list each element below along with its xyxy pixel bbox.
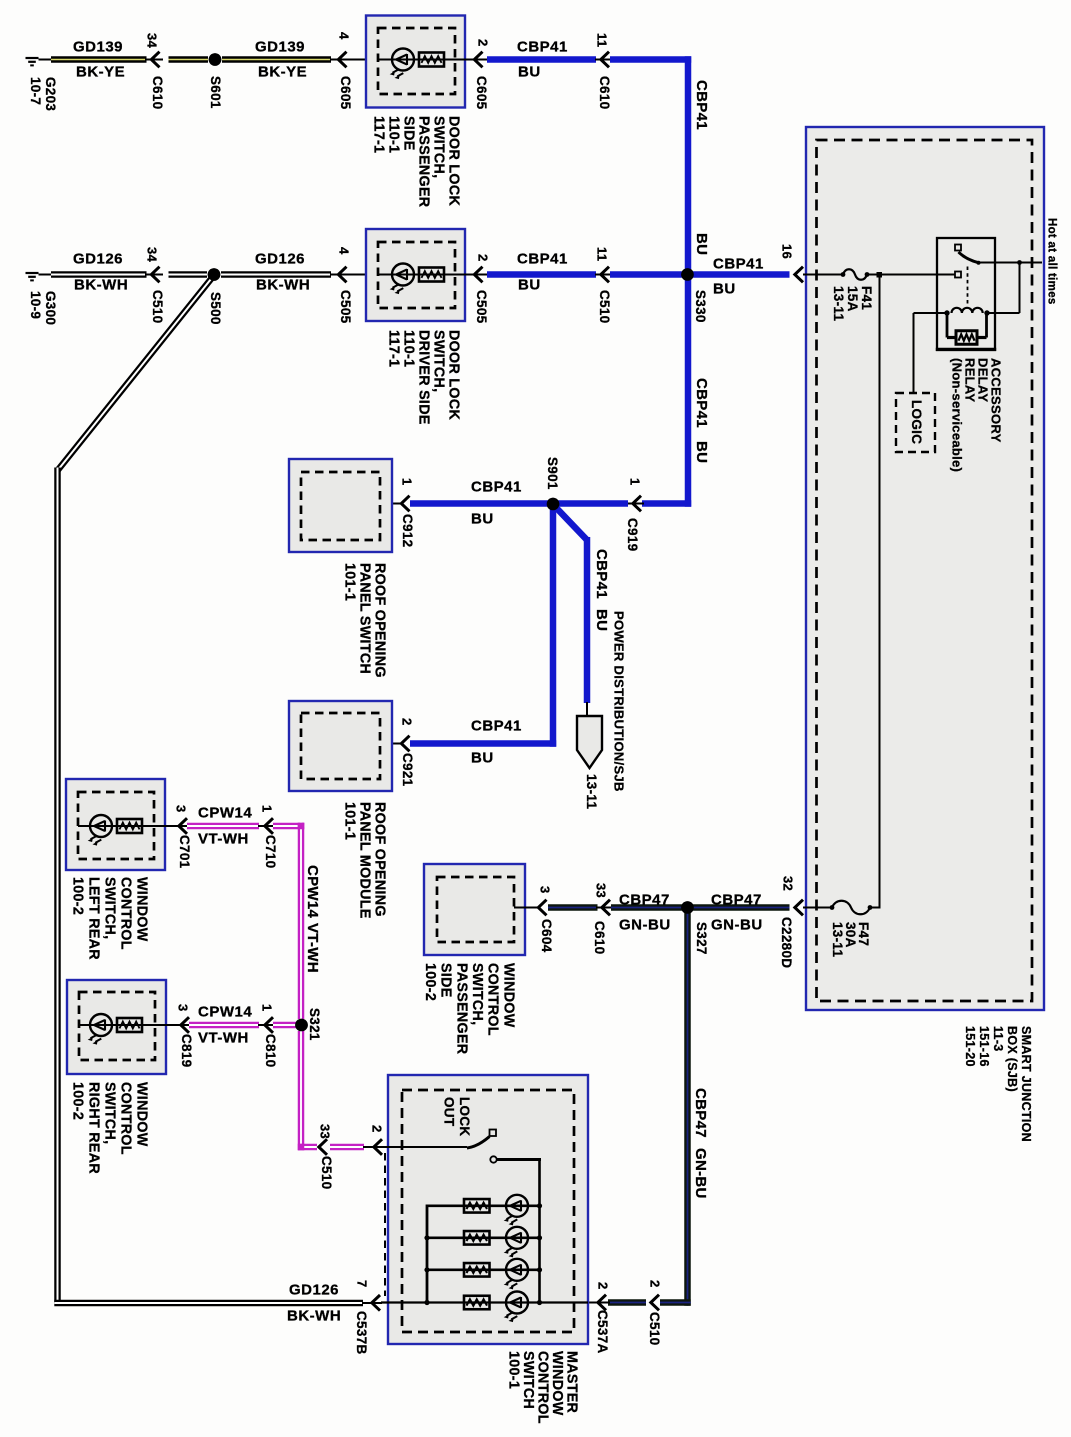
wire thin C2280D to fuse F47 <box>803 907 833 909</box>
splice S330 <box>681 268 694 281</box>
smart junction box SJB outline <box>806 127 1044 1010</box>
svg-text:BU: BU <box>471 750 494 767</box>
svg-text:3: 3 <box>173 805 188 813</box>
svg-text:2: 2 <box>475 39 490 47</box>
svg-text:CBP41: CBP41 <box>517 39 568 56</box>
connector C701 pin 3 arrow <box>179 818 187 834</box>
svg-text:2: 2 <box>399 718 414 726</box>
svg-text:34: 34 <box>144 33 159 49</box>
wire CBP41 BU row1 <box>487 56 596 63</box>
svg-text:POWER DISTRIBUTION/SJB: POWER DISTRIBUTION/SJB <box>611 611 626 792</box>
wire thin into driver door lock switch <box>330 274 366 276</box>
connector C505 pin 4 arrow <box>338 267 346 283</box>
door lock switch driver side box <box>366 229 465 321</box>
window control switch passenger inner dashed <box>437 877 514 942</box>
splice S327 <box>681 901 694 914</box>
resistor in right rear switch <box>117 1018 142 1032</box>
wire thin vertical F41 junction down to F47 <box>879 275 881 908</box>
relay switch arm <box>959 252 979 263</box>
svg-text:VT-WH: VT-WH <box>198 1030 249 1047</box>
wire thin coil to logic <box>913 313 915 393</box>
wire GD126 BK-WH segment 2 <box>169 271 208 278</box>
wire CPW14 VT-WH vertical S321 down <box>298 1031 305 1150</box>
svg-text:C610: C610 <box>592 921 607 954</box>
svg-text:C505: C505 <box>474 290 489 324</box>
svg-text:C610: C610 <box>150 76 165 109</box>
svg-text:C819: C819 <box>179 1034 194 1067</box>
resistor in driver door lock switch <box>419 268 444 282</box>
svg-text:GD139: GD139 <box>73 39 123 56</box>
svg-text:BU: BU <box>693 441 710 463</box>
svg-text:CBP41: CBP41 <box>713 256 764 273</box>
lamp row 2 wire <box>427 1237 540 1240</box>
wire CBP41 BU roof horizontal right part <box>642 500 691 507</box>
svg-text:CBP41: CBP41 <box>471 479 522 496</box>
svg-text:GN-BU: GN-BU <box>619 917 671 934</box>
roof opening panel switch inner dashed <box>301 472 380 540</box>
connector C510 pin 11 arrow <box>601 267 609 283</box>
svg-text:BK-WH: BK-WH <box>74 277 128 294</box>
svg-text:BK-YE: BK-YE <box>258 64 307 81</box>
svg-text:C605: C605 <box>338 76 353 110</box>
svg-text:BU: BU <box>693 233 710 255</box>
svg-text:11: 11 <box>594 33 609 47</box>
relay switch fixed terminal upper <box>955 245 961 251</box>
svg-text:C701: C701 <box>177 835 192 869</box>
svg-text:CPW14: CPW14 <box>198 805 252 822</box>
splice S327 junction <box>681 901 694 914</box>
wire thin under connector C610 pin 11 row1 <box>595 59 612 61</box>
fuse F41 15A <box>841 269 870 280</box>
wire CBP41 BU vertical S901 down <box>550 505 557 747</box>
window control switch passenger side box <box>424 864 525 955</box>
lamp row 1 <box>504 1195 528 1226</box>
wire CBP41 BU module horizontal <box>410 740 556 747</box>
power distribution SJB pointer <box>577 716 602 768</box>
wire CBP41 BU vertical to S330 <box>685 56 692 275</box>
svg-text:VT-WH: VT-WH <box>304 923 321 973</box>
svg-text:C912: C912 <box>400 514 415 547</box>
resistor in left rear switch <box>117 819 142 833</box>
wire thin under connector C610 row1 <box>145 59 163 61</box>
wire thin under C810 <box>258 1024 275 1026</box>
svg-text:GD139: GD139 <box>255 39 305 56</box>
svg-text:BU: BU <box>518 64 541 81</box>
svg-text:1: 1 <box>627 478 642 486</box>
lamp row 4 <box>504 1292 528 1323</box>
resistor lamp row 1 <box>464 1199 490 1213</box>
svg-text:3: 3 <box>175 1004 190 1012</box>
svg-text:CBP41: CBP41 <box>517 251 568 268</box>
svg-text:4: 4 <box>336 247 351 255</box>
door lock switch driver inner dashed <box>378 242 455 308</box>
svg-text:7: 7 <box>354 1280 369 1288</box>
svg-text:C510: C510 <box>319 1156 334 1189</box>
svg-text:CBP41: CBP41 <box>693 80 710 130</box>
wire thin ground lead row2 <box>39 274 52 276</box>
svg-text:C2280D: C2280D <box>779 917 794 968</box>
window control switch right rear inner dashed <box>79 992 155 1060</box>
wire thin under connector C510 row2 <box>145 274 163 276</box>
svg-text:C537B: C537B <box>354 1311 369 1355</box>
wire CPW14 VT-WH stub <box>330 1144 364 1151</box>
wire thin passenger switch to C604 <box>514 907 539 909</box>
wire thin under C537A <box>588 1302 610 1304</box>
wire CBP41 BU roof horizontal to S901 <box>556 500 628 507</box>
connector C810 pin 1 arrow <box>265 1017 273 1033</box>
svg-text:C919: C919 <box>625 518 640 551</box>
connector C2280D pin 32 arrow <box>795 900 803 916</box>
svg-text:BK-YE: BK-YE <box>76 64 125 81</box>
connector C537A pin 2 arrow <box>598 1295 606 1311</box>
lamp in driver door lock switch <box>390 264 414 295</box>
svg-text:BK-WH: BK-WH <box>287 1308 341 1325</box>
wire thin inside right rear switch <box>79 1024 189 1026</box>
splice S321 <box>295 1019 308 1032</box>
svg-text:CBP47: CBP47 <box>619 892 670 909</box>
svg-text:C537A: C537A <box>595 1310 610 1354</box>
lamp return rail left <box>426 1205 429 1304</box>
svg-text:C810: C810 <box>263 1034 278 1067</box>
svg-text:Hot at all times: Hot at all times <box>1045 218 1057 305</box>
svg-text:33: 33 <box>317 1124 332 1139</box>
wire thin under pin2 arrow master <box>363 1146 383 1148</box>
connector C605 pin 2 arrow right <box>474 52 482 68</box>
svg-text:S500: S500 <box>208 292 223 325</box>
svg-text:BU: BU <box>713 281 736 298</box>
door lock switch passenger inner dashed <box>378 28 455 94</box>
svg-text:GN-BU: GN-BU <box>692 1148 709 1199</box>
wire CBP41 BU row2 to S330 <box>610 271 684 278</box>
wire thin roof switch to C912 <box>379 503 402 505</box>
svg-text:C510: C510 <box>597 290 612 323</box>
lamp row 1 wire <box>427 1205 540 1208</box>
master window control switch inner dashed <box>402 1090 574 1332</box>
window control switch left rear inner dashed <box>78 792 154 859</box>
wire GD126 BK-WH left vertical <box>54 468 61 1304</box>
lamp in left rear switch <box>88 815 112 846</box>
svg-text:2: 2 <box>475 254 490 262</box>
wire GD139 BK-YE segment 3 <box>222 56 331 63</box>
svg-text:CBP47: CBP47 <box>711 892 762 909</box>
connector C921 pin 2 arrow <box>401 736 409 752</box>
svg-text:3: 3 <box>537 886 552 894</box>
wire vertical hot to coil right <box>1019 263 1021 314</box>
wire thin under C710 <box>258 825 274 827</box>
svg-text:1: 1 <box>259 805 274 813</box>
SJB inner dashed border <box>817 140 1033 1001</box>
wire thin inside left rear switch <box>78 825 189 827</box>
lamp row 3 wire <box>427 1269 540 1272</box>
logic box dashed <box>896 393 935 452</box>
resistor lamp row 2 <box>464 1231 490 1245</box>
roof opening panel module box <box>289 701 392 791</box>
svg-text:11: 11 <box>594 247 609 261</box>
splice S601 junction <box>209 53 222 66</box>
svg-text:C510: C510 <box>150 290 165 323</box>
wire GD139 BK-YE segment 2 <box>169 56 209 63</box>
wire thin under C537B <box>362 1302 382 1304</box>
svg-text:C505: C505 <box>338 290 353 324</box>
master window control switch box <box>388 1075 588 1344</box>
svg-text:S901: S901 <box>545 457 560 490</box>
wire GD126 BK-WH segment 1 <box>51 271 147 278</box>
wire thin fuse F41 to relay <box>866 274 956 276</box>
svg-text:2: 2 <box>369 1125 384 1133</box>
svg-text:VT-WH: VT-WH <box>198 831 249 848</box>
svg-text:GN-BU: GN-BU <box>711 917 763 934</box>
svg-text:GD126: GD126 <box>255 251 305 268</box>
junction dots row 2 <box>537 1235 542 1240</box>
junction dot F41 branch <box>877 272 883 278</box>
wire CBP41 BU vertical to power distribution <box>584 537 591 703</box>
lamp in right rear switch <box>88 1014 112 1045</box>
relay resistor <box>946 313 949 338</box>
ground G300 <box>26 273 39 280</box>
wire CPW14 VT-WH corner to C510 <box>298 1144 317 1151</box>
wire CBP47 GN-BU segment 2 <box>611 904 683 911</box>
wire thin under C610 pin33 <box>596 907 613 909</box>
splice S601 <box>209 53 222 66</box>
connector C604 pin 3 arrow <box>538 900 546 916</box>
lamp row 3 <box>504 1259 528 1290</box>
connector C505 pin 2 arrow right <box>474 267 482 283</box>
svg-text:C921: C921 <box>400 753 415 787</box>
wire CBP47 GN-BU vertical S327 down <box>684 913 691 1306</box>
wire thin ground lead row1 <box>39 59 52 61</box>
svg-text:13-11: 13-11 <box>584 774 599 809</box>
wire thin inside passenger door lock switch <box>378 59 488 61</box>
wire CBP41 BU S901 to C912 <box>410 500 550 507</box>
svg-text:C604: C604 <box>539 919 554 953</box>
wire thin under connector C510 pin 11 <box>595 274 612 276</box>
connector pin 16 arrow into SJB <box>795 267 803 283</box>
connector C510 pin 33 arrow lower <box>319 1139 327 1155</box>
wire lockout contact to lamp rail <box>497 1158 541 1161</box>
wire CBP41 BU vertical S330 down to roof corner <box>685 275 692 507</box>
wire CPW14 VT-WH to corner <box>273 823 304 830</box>
lockout switch arm <box>467 1137 490 1149</box>
window control switch right rear box <box>67 980 166 1074</box>
svg-text:CBP41: CBP41 <box>593 549 610 599</box>
lockout switch fixed terminal square <box>490 1130 497 1137</box>
wire CBP47 GN-BU segment 3 <box>692 904 790 911</box>
svg-text:2: 2 <box>595 1282 610 1290</box>
wire GD126 BK-WH diagonal from S500 <box>58 277 214 471</box>
accessory delay relay box <box>937 238 995 350</box>
splice S901 junction <box>547 498 560 511</box>
wire thin lockout feed <box>381 1146 467 1148</box>
svg-text:16: 16 <box>779 244 794 259</box>
wire thin fuse F47 to junction riser <box>869 907 881 909</box>
svg-text:CPW14: CPW14 <box>304 865 321 919</box>
splice S500 junction <box>208 268 221 281</box>
wire thin from pin16 to fuse F41 <box>803 274 844 276</box>
connector C510 pin 34 arrow <box>151 267 159 283</box>
wire GD126 BK-WH segment 3 <box>221 271 331 278</box>
svg-text:BU: BU <box>593 609 610 631</box>
roof opening panel module inner dashed <box>301 713 380 779</box>
wire CPW14 VT-WH left rear <box>187 823 259 830</box>
dashed connector bracket C537B <box>384 1153 386 1296</box>
wire CBP47 GN-BU bottom to C510 <box>660 1299 691 1306</box>
relay coil <box>914 312 949 314</box>
svg-text:34: 34 <box>144 247 159 263</box>
connector C537B pin 7 arrow <box>372 1295 380 1311</box>
svg-text:CBP41: CBP41 <box>471 718 522 735</box>
wire CBP47 GN-BU between arrows <box>608 1299 646 1306</box>
svg-text:S330: S330 <box>693 290 708 323</box>
svg-text:BU: BU <box>518 277 541 294</box>
connector C919 pin 1 arrow <box>633 496 641 512</box>
wire GD126 BK-WH bottom horizontal <box>54 1300 363 1307</box>
splice S901 <box>547 498 560 511</box>
junction dots row 1 <box>537 1203 542 1208</box>
svg-text:S601: S601 <box>208 76 223 109</box>
wire CBP41 BU row2 <box>487 271 596 278</box>
svg-text:BK-WH: BK-WH <box>256 277 310 294</box>
svg-text:32: 32 <box>780 876 795 891</box>
lockout switch lower contact circle <box>490 1156 496 1162</box>
svg-text:BU: BU <box>471 511 494 528</box>
svg-text:4: 4 <box>336 32 351 40</box>
wire CPW14 VT-WH to S321 <box>273 1022 297 1029</box>
wire CBP41 BU diagonal S901 to power distribution <box>555 507 587 541</box>
svg-text:CBP47: CBP47 <box>692 1088 709 1138</box>
wire thin under C919 <box>627 503 644 505</box>
svg-text:CBP41: CBP41 <box>693 378 710 428</box>
svg-text:LOGIC: LOGIC <box>909 400 924 444</box>
svg-text:1: 1 <box>399 478 414 486</box>
wire CPW14 VT-WH right rear <box>189 1022 259 1029</box>
svg-text:S327: S327 <box>694 922 709 955</box>
wire CBP47 GN-BU segment 1 <box>548 904 598 911</box>
wire CBP41 BU row1 to corner <box>610 56 691 63</box>
wire CPW14 VT-WH vertical to S321 <box>298 823 305 1019</box>
connector C819 pin 3 arrow <box>181 1017 189 1033</box>
lamp row 4 wire / master ground path <box>381 1301 588 1303</box>
splice S500 <box>208 268 221 281</box>
splice S321 junction <box>295 1019 308 1032</box>
svg-text:C605: C605 <box>474 76 489 110</box>
svg-text:2: 2 <box>647 1280 662 1288</box>
connector C610 pin 11 arrow <box>601 52 609 68</box>
fuse F47 30A <box>830 901 873 915</box>
resistor lamp row 4 <box>464 1296 490 1310</box>
lamp supply rail right <box>538 1158 541 1303</box>
connector C610 pin 33 arrow <box>602 900 610 916</box>
wire thin neck to power distribution pointer <box>586 702 588 717</box>
svg-text:1: 1 <box>259 1004 274 1012</box>
lamp in passenger door lock switch <box>390 49 414 80</box>
svg-text:GD126: GD126 <box>289 1282 339 1299</box>
junction dots row 3 <box>537 1267 542 1272</box>
relay dashed link coil to arm <box>967 267 969 304</box>
window control switch left rear box <box>66 779 165 870</box>
relay switch common terminal from F41 <box>955 272 961 278</box>
wire GD139 BK-YE segment 1 <box>51 56 147 63</box>
svg-text:C510: C510 <box>647 1312 662 1345</box>
svg-text:C710: C710 <box>263 835 278 868</box>
wire thin into passenger door lock switch <box>330 59 366 61</box>
connector C610 pin 34 arrow <box>151 52 159 68</box>
door lock switch passenger side box <box>366 16 465 108</box>
connector C710 pin 1 arrow <box>265 818 273 834</box>
svg-text:S321: S321 <box>307 1008 322 1041</box>
connector C605 pin 4 arrow <box>338 52 346 68</box>
splice S330 junction <box>681 268 694 281</box>
connector pin 2 arrow into master switch <box>374 1139 382 1155</box>
junction dots row 4 <box>537 1300 542 1305</box>
svg-text:33: 33 <box>593 883 608 898</box>
lamp row 2 <box>504 1227 528 1258</box>
ground G203 <box>26 58 39 65</box>
roof opening panel switch box <box>289 459 392 552</box>
svg-text:CPW14: CPW14 <box>198 1004 252 1021</box>
resistor in passenger door lock switch <box>419 53 444 67</box>
connector C912 pin 1 arrow <box>401 496 409 512</box>
svg-text:GD126: GD126 <box>73 251 123 268</box>
svg-text:C610: C610 <box>597 76 612 109</box>
wire CBP41 BU S330 to SJB <box>691 271 790 278</box>
connector C510 pin 2 arrow bottom <box>651 1295 659 1311</box>
wire thin inside driver door lock switch <box>378 274 488 276</box>
wire hot feed from relay contact <box>979 262 1042 264</box>
resistor lamp row 3 <box>464 1263 490 1277</box>
wire thin roof module to C921 <box>379 743 402 745</box>
